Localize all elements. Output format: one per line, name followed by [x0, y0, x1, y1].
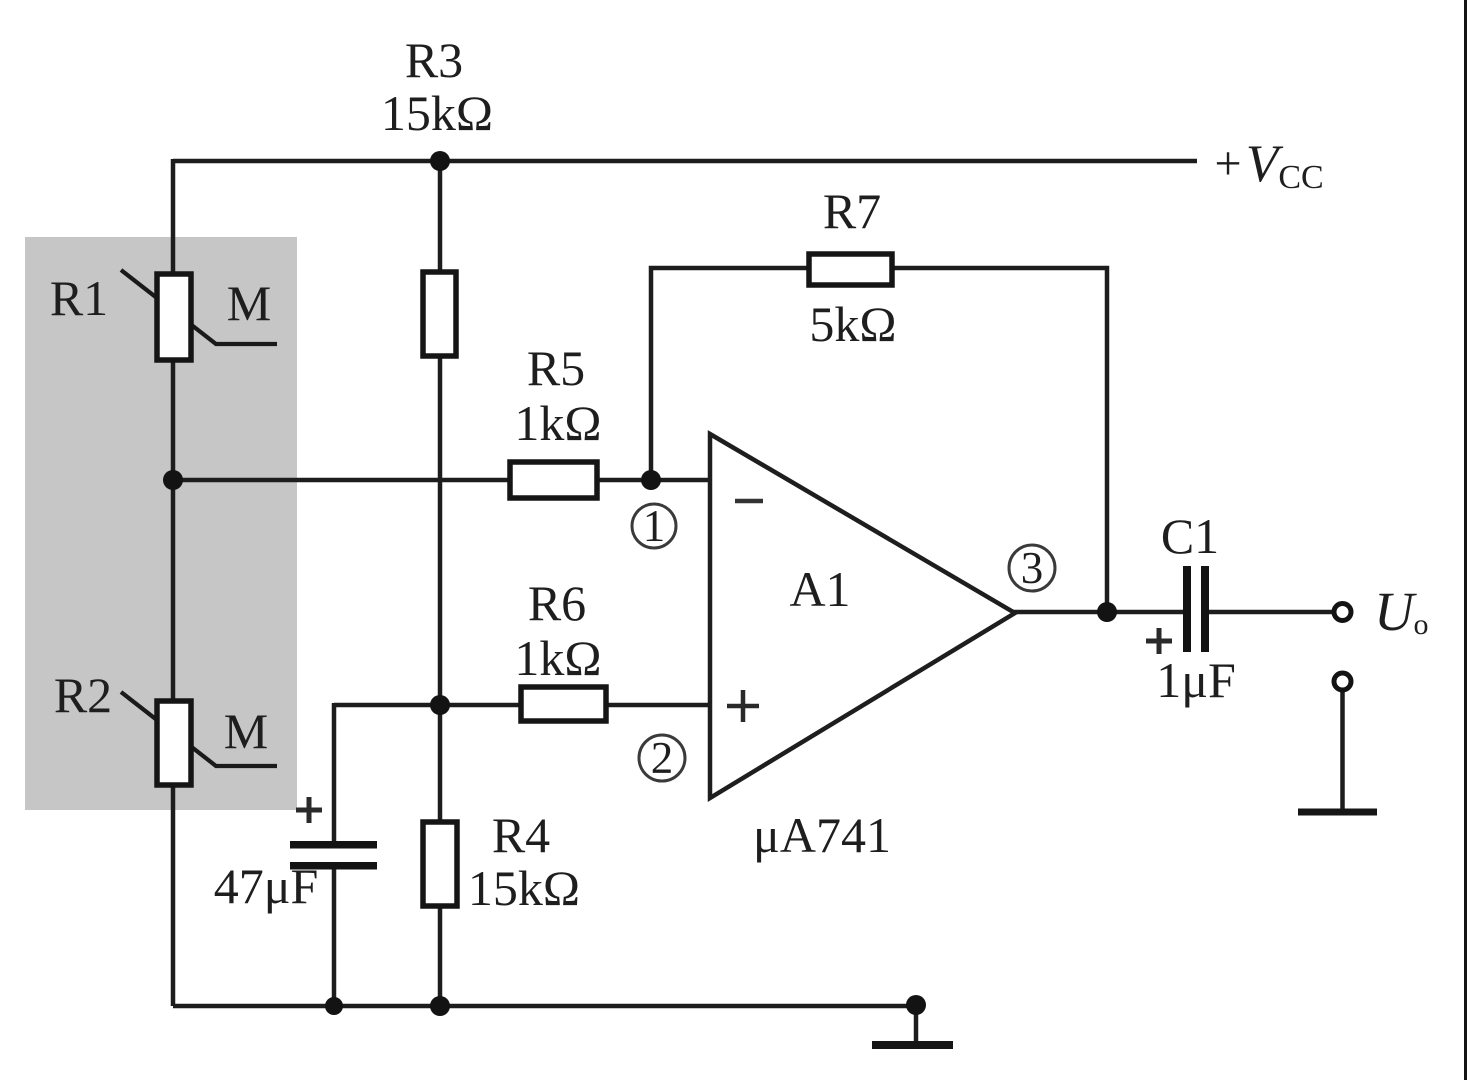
svg-text:A1: A1: [789, 561, 850, 617]
svg-text:μA741: μA741: [753, 807, 891, 863]
svg-text:15kΩ: 15kΩ: [468, 860, 580, 916]
svg-text:M: M: [224, 703, 268, 759]
svg-text:M: M: [227, 275, 271, 331]
svg-text:+: +: [1214, 137, 1241, 190]
svg-text:15kΩ: 15kΩ: [381, 85, 493, 141]
svg-text:2: 2: [651, 733, 674, 783]
svg-text:R3: R3: [405, 32, 463, 88]
svg-text:1: 1: [643, 501, 666, 551]
svg-text:47μF: 47μF: [214, 858, 319, 914]
svg-text:1kΩ: 1kΩ: [514, 395, 601, 451]
svg-text:R5: R5: [527, 340, 585, 396]
svg-text:R6: R6: [528, 575, 586, 631]
svg-text:R4: R4: [492, 807, 550, 863]
svg-text:R7: R7: [823, 183, 881, 239]
svg-text:5kΩ: 5kΩ: [809, 296, 896, 352]
svg-text:3: 3: [1021, 543, 1044, 593]
svg-text:1μF: 1μF: [1156, 652, 1236, 708]
svg-text:U: U: [1374, 581, 1417, 642]
svg-text:o: o: [1414, 608, 1429, 641]
svg-text:R1: R1: [50, 270, 108, 326]
svg-text:R2: R2: [54, 667, 112, 723]
svg-text:CC: CC: [1278, 159, 1323, 196]
svg-text:1kΩ: 1kΩ: [514, 630, 601, 686]
svg-text:C1: C1: [1161, 508, 1219, 564]
